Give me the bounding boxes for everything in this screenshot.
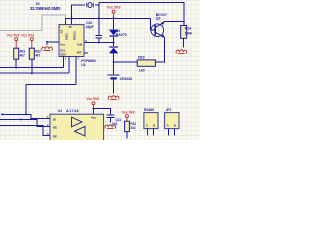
wire L1 down to transistor base [150,18,155,30]
capacitor C20 [96,35,102,42]
resistor R31 [125,121,130,131]
svg-text:32.768KHZ-SMD: 32.768KHZ-SMD [30,6,61,11]
ground earth U2 Vss [42,47,53,51]
wire Vdd line W2 chip to diode node [84,42,114,44]
node dot INT vertical on line1 [25,113,27,115]
resistor R22 [29,48,34,59]
wire gray net from left edge to oscillator area [0,15,66,31]
wire U2 SCL bottom pin [63,57,65,68]
diode D2 bottom half [109,46,118,53]
node dot OSCI column on L1 [71,17,73,19]
svg-text:A0: A0 [60,29,64,33]
node dot line1 left end [1,113,3,115]
node dot on line2 [20,118,22,120]
svg-text:OSCO: OSCO [73,31,77,40]
node dot diode middle on W2 [113,42,115,44]
node dot R21 on SCL [15,67,17,69]
svg-text:SDA: SDA [60,52,67,56]
node dot Vcc on L1 [113,17,115,19]
bus wire INT route down [26,84,76,114]
chip U1 [50,114,104,141]
wire Vcc stem into U1 [92,108,94,114]
wire oscillator rail L1 [66,17,151,19]
wire x=98.8 column crystal to C20 [98,3,100,36]
svg-text:R24: R24 [185,26,191,30]
node dot R22 on SDA [31,72,33,74]
resistor R21 [14,48,19,59]
wire bundle line 1 to U1 pin1 [2,114,51,118]
svg-text:RS485: RS485 [144,108,154,112]
svg-text:U1: U1 [58,109,62,113]
svg-text:5: 5 [65,57,67,61]
svg-text:Vcc 3V3: Vcc 3V3 [21,33,34,37]
node dot collector junction [183,21,185,23]
svg-text:100k: 100k [185,32,193,36]
ground earth below C31 [105,125,116,129]
svg-text:Vss: Vss [60,43,65,47]
wire bundle line 3 to U1 pin3 [0,125,50,135]
svg-text:JP1: JP1 [166,108,172,112]
svg-text:4k7: 4k7 [20,54,25,58]
transistor Q3 [151,22,165,38]
svg-text:33pF: 33pF [86,25,95,29]
resistor R24 [181,26,187,39]
wire U2 INT stub [84,52,88,54]
crystal X2 [87,2,93,7]
wire U2 SDA bottom pin [68,57,70,74]
op-amp triangle inside U1 [72,117,83,127]
wire top rail y=2.6 [99,3,184,26]
svg-text:PCF8563: PCF8563 [81,59,96,63]
capacitor C31 [106,115,114,123]
wire Q3 collector to R24 column [164,21,184,23]
svg-text:Vcc 3V3: Vcc 3V3 [107,6,121,10]
diode D2 top half BAV70 [109,30,118,37]
svg-text:INT: INT [77,51,82,55]
node dot Vcc branch [92,108,94,110]
svg-text:1k0: 1k0 [139,69,145,73]
svg-text:Vdd: Vdd [77,43,83,47]
node dot C20 on W2 [98,42,100,44]
svg-text:OSCI: OSCI [65,33,69,40]
resistor R23 [137,60,155,66]
wire JP1 pin stubs [168,129,170,136]
wire Vcc branch to C31 [93,109,110,115]
wire U2 Vss stub to earth [47,42,59,45]
svg-text:CR1620: CR1620 [120,77,133,81]
svg-text:Vcc 3V3: Vcc 3V3 [122,110,135,114]
wire between diode halves [113,37,115,47]
svg-text:Vcc: Vcc [91,115,96,119]
svg-text:BAV70: BAV70 [116,33,127,37]
wire battery node to R23 [114,61,138,63]
wire R22 to SDA [31,59,33,73]
battery CR1620 [108,75,120,93]
wire U2 second top pin stub [65,18,67,24]
node dot battery R23 branch [113,61,115,63]
ground earth below battery [108,96,119,100]
chip U2 PCF8563 [59,25,84,57]
svg-text:DE: DE [53,126,57,130]
svg-text:A1748: A1748 [66,109,79,113]
svg-text:RE: RE [53,135,57,139]
wire diode to battery column [113,53,115,75]
wire RS485 pin stubs [147,129,149,136]
node dot crystal column on L1 [98,17,100,19]
svg-text:2k2: 2k2 [130,126,135,130]
svg-text:Vcc 5V0: Vcc 5V0 [86,97,99,101]
wire U2 INT bottom pin [75,57,77,85]
svg-text:3: 3 [77,57,79,61]
svg-text:Q3: Q3 [156,17,161,21]
wire R24 to ground [183,38,185,47]
svg-text:4k7: 4k7 [35,54,40,58]
wire R21 to SCL [15,59,17,67]
wire Vcc stem to L1 and diode [113,17,115,30]
wire R23 to Q3 emitter [155,37,164,62]
svg-text:DI: DI [53,118,56,122]
wire R31 down [126,132,128,139]
ground earth below R24 [176,50,187,54]
bus wire SDA [0,72,69,74]
bus wire SCL [0,67,64,69]
svg-text:U2: U2 [81,63,85,67]
wire bundle line 2 to U1 pin2 [0,119,50,126]
wire crystal right lead [95,4,99,6]
svg-text:Vcc 5V0: Vcc 5V0 [7,33,20,37]
svg-text:R23: R23 [138,56,144,60]
wire crystal left lead and OSCI vertical [72,5,85,25]
